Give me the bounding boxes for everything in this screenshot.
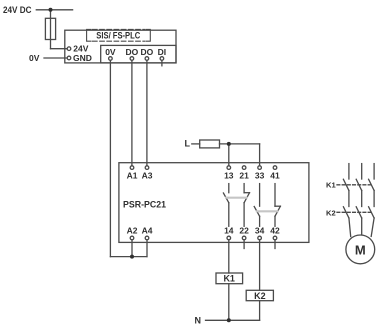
svg-text:24V DC: 24V DC (3, 5, 32, 15)
svg-text:K2: K2 (254, 291, 266, 301)
svg-text:DO: DO (141, 47, 154, 57)
svg-text:0V: 0V (105, 47, 116, 57)
svg-text:N: N (195, 315, 202, 325)
svg-text:34: 34 (255, 226, 265, 236)
svg-text:GND: GND (73, 53, 92, 63)
svg-text:L: L (185, 139, 191, 149)
svg-text:DO: DO (126, 47, 139, 57)
svg-text:A1: A1 (127, 171, 138, 181)
svg-text:33: 33 (255, 171, 265, 181)
svg-text:K2: K2 (326, 209, 336, 218)
svg-text:K1: K1 (223, 274, 235, 284)
svg-text:K1: K1 (326, 180, 336, 189)
svg-text:PSR-PC21: PSR-PC21 (123, 200, 166, 210)
svg-text:14: 14 (224, 226, 234, 236)
svg-text:42: 42 (270, 226, 280, 236)
svg-text:13: 13 (224, 171, 234, 181)
svg-text:SIS/ FS-PLC: SIS/ FS-PLC (96, 30, 140, 40)
svg-text:DI: DI (158, 47, 167, 57)
svg-text:22: 22 (239, 226, 249, 236)
svg-text:21: 21 (239, 171, 249, 181)
svg-text:0V: 0V (29, 53, 40, 63)
svg-text:41: 41 (270, 171, 280, 181)
svg-text:A2: A2 (127, 226, 138, 236)
svg-text:A4: A4 (142, 226, 153, 236)
svg-text:A3: A3 (142, 171, 153, 181)
svg-text:M: M (355, 243, 366, 258)
